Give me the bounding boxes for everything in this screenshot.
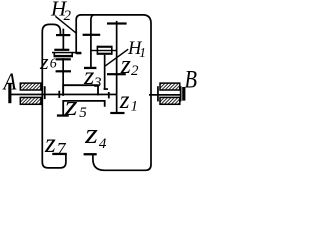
planet top gear bar (56, 34, 70, 36)
bearing right lower block (160, 97, 180, 104)
bearing right left wall tick (157, 86, 159, 101)
gear z2 bar (107, 73, 126, 75)
gear z6 lower bar (56, 58, 71, 60)
clutch top bar (97, 46, 111, 48)
ring hanger cross gear bar (83, 34, 101, 36)
gear bar on main shaft at bearing right (44, 86, 46, 99)
z6 rim right up tick (71, 52, 73, 55)
svg-text:3: 3 (93, 75, 102, 91)
gear bar below z6 (56, 70, 71, 72)
svg-text:B: B (185, 67, 198, 94)
gear bar on main shaft right of z5 (108, 92, 110, 98)
bearing left upper block (20, 83, 41, 90)
bearing right right wall tick (180, 86, 182, 101)
planet bottom gear bar (54, 49, 69, 51)
gear z7 bar (52, 153, 67, 155)
shaft B end bar (182, 87, 185, 101)
right shaft top gear bar (107, 22, 127, 24)
ring hanger bottom gear bar (84, 67, 96, 69)
ring gear z3 bracket (63, 85, 98, 96)
right shaft vertical (116, 21, 118, 113)
ring bar from drum (52, 52, 81, 54)
carrier dome and left leg with z7 loop (42, 24, 66, 168)
clutch drum stem foot (104, 88, 108, 90)
gear z1 bar (110, 112, 124, 114)
svg-text:z: z (84, 119, 98, 150)
svg-text:2: 2 (64, 8, 72, 24)
z6 shaft stem down (62, 58, 64, 95)
clutch left tick (97, 46, 99, 55)
planet shaft left row (63, 29, 65, 50)
clutch axis line (91, 50, 117, 51)
clutch right tick (111, 46, 113, 55)
svg-text:2: 2 (131, 63, 139, 79)
drum container outline (76, 15, 151, 170)
svg-text:5: 5 (79, 105, 87, 121)
bearing right upper block (160, 83, 180, 90)
svg-text:6: 6 (50, 57, 57, 72)
gear z4 bar (84, 153, 97, 155)
clutch drum stem (104, 55, 106, 90)
svg-text:z: z (64, 91, 78, 122)
svg-text:1: 1 (139, 45, 146, 60)
gear z6 rim bar (54, 55, 74, 57)
svg-text:7: 7 (57, 139, 67, 159)
gear z5 foot bar (57, 114, 69, 116)
svg-text:z: z (39, 49, 49, 74)
drum inner foot bar (76, 53, 81, 55)
wire main shaft line left (11, 94, 117, 96)
gear z5 bracket (63, 101, 104, 115)
brake H1 lever line (105, 49, 128, 66)
svg-text:4: 4 (99, 136, 107, 152)
gear bar on main shaft left of z3 (58, 91, 60, 98)
bearing left lower block (20, 97, 41, 104)
ring hanger shaft (91, 15, 94, 69)
svg-text:z: z (44, 128, 56, 158)
brake H2 lever line (55, 16, 75, 33)
svg-text:1: 1 (131, 99, 139, 115)
svg-text:z: z (119, 87, 130, 114)
clutch bottom bar (97, 53, 111, 55)
shaft A end bar (8, 83, 11, 103)
z6 rim left up tick (54, 52, 56, 55)
wire main shaft line right (149, 94, 182, 96)
